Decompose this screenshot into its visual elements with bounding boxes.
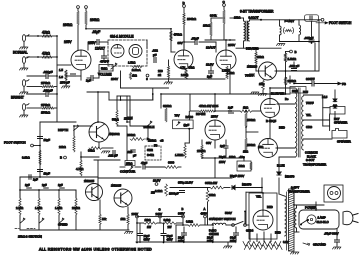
svg-text:3.6ΩCT: 3.6ΩCT [249, 16, 259, 20]
svg-text:100kΩ: 100kΩ [63, 23, 73, 27]
svg-text:10μF: 10μF [44, 138, 51, 142]
svg-text:6800: 6800 [168, 161, 175, 165]
svg-text:1μF: 1μF [58, 183, 63, 187]
svg-text:285V: 285V [228, 43, 236, 47]
svg-text:FB: FB [154, 144, 158, 148]
svg-text:22kΩ: 22kΩ [59, 145, 67, 149]
svg-text:47kΩ: 47kΩ [42, 52, 50, 56]
svg-text:1μF: 1μF [220, 144, 225, 148]
svg-text:250V: 250V [211, 115, 218, 119]
svg-text:1 AMP: 1 AMP [318, 216, 326, 220]
svg-text:DEPTH: DEPTH [58, 128, 68, 132]
svg-text:70V: 70V [175, 113, 180, 117]
svg-text:12.5V: 12.5V [206, 63, 214, 67]
svg-text:SPEED: SPEED [58, 223, 67, 227]
svg-text:390k: 390k [210, 14, 217, 18]
svg-text:2W: 2W [168, 225, 172, 229]
svg-text:10μF: 10μF [44, 172, 51, 176]
svg-text:1000μF: 1000μF [169, 192, 179, 196]
svg-text:1μF: 1μF [25, 183, 30, 187]
svg-text:220kΩ: 220kΩ [288, 79, 297, 83]
svg-text:1W: 1W [147, 225, 151, 229]
svg-text:.022: .022 [152, 49, 158, 53]
svg-text:20μF: 20μF [144, 234, 150, 238]
svg-text:60V: 60V [206, 141, 211, 145]
svg-text:RED: RED [267, 205, 273, 209]
svg-text:1kΩ: 1kΩ [243, 150, 248, 154]
svg-text:165V: 165V [64, 40, 72, 44]
svg-text:1μF: 1μF [228, 106, 233, 110]
svg-text:RED: RED [275, 231, 281, 235]
svg-text:.001μF: .001μF [43, 70, 53, 74]
svg-text:10k: 10k [102, 217, 107, 221]
svg-text:500V: 500V [225, 211, 232, 215]
svg-text:100V: 100V [111, 77, 118, 81]
svg-text:750PF: 750PF [306, 101, 314, 105]
svg-text:30μF: 30μF [230, 236, 236, 240]
svg-text:10kΩ: 10kΩ [145, 218, 151, 222]
svg-text:485V: 485V [201, 211, 208, 215]
svg-text:20μF: 20μF [207, 236, 213, 240]
svg-text:(2μF: (2μF [184, 123, 190, 127]
svg-text:2N2925: 2N2925 [111, 184, 122, 188]
svg-text:B: B [60, 156, 62, 160]
svg-text:33kΩ: 33kΩ [88, 149, 95, 153]
svg-text:25kΩ 3 SECTION: 25kΩ 3 SECTION [18, 235, 42, 239]
svg-text:.05μF: .05μF [191, 37, 199, 41]
svg-text:47μF: 47μF [141, 161, 148, 165]
svg-text:1.5: 1.5 [59, 68, 63, 72]
svg-text:385V: 385V [178, 211, 185, 215]
svg-text:3.3kΩ: 3.3kΩ [22, 156, 30, 160]
svg-text:BRIGHT: BRIGHT [11, 96, 24, 100]
svg-text:BLUE: BLUE [277, 164, 285, 168]
svg-text:FOOT SWITCH: FOOT SWITCH [329, 21, 352, 25]
svg-text:.01μF: .01μF [92, 30, 100, 34]
svg-text:.022 μF: .022 μF [108, 154, 118, 158]
svg-text:IN3070: IN3070 [285, 175, 295, 179]
svg-text:6.8kΩ: 6.8kΩ [186, 220, 193, 224]
svg-text:STANDBY SWITCH: STANDBY SWITCH [209, 217, 236, 221]
svg-text:μF: μF [133, 154, 137, 158]
svg-text:B: B [295, 50, 297, 54]
svg-text:15Ω: 15Ω [121, 217, 126, 221]
svg-text:.05μF 600V: .05μF 600V [324, 232, 339, 236]
svg-text:IN3070: IN3070 [242, 183, 252, 187]
svg-text:9: 9 [146, 77, 148, 81]
svg-text:390kΩ: 390kΩ [127, 133, 135, 137]
svg-text:620kΩ: 620kΩ [163, 104, 172, 108]
svg-text:2μF: 2μF [33, 178, 38, 182]
svg-text:100kΩ: 100kΩ [90, 18, 100, 22]
svg-text:100kΩ: 100kΩ [187, 17, 197, 21]
svg-text:150V: 150V [219, 160, 225, 164]
svg-text:2μF: 2μF [86, 79, 91, 83]
svg-text:8.2kΩ: 8.2kΩ [155, 189, 162, 193]
svg-text:10kΩ: 10kΩ [209, 193, 215, 197]
svg-text:1.8kΩ: 1.8kΩ [55, 206, 62, 210]
svg-text:BLUE-WH: BLUE-WH [271, 92, 284, 96]
svg-text:1kΩ: 1kΩ [243, 106, 249, 110]
svg-text:2N2902: 2N2902 [109, 132, 120, 136]
svg-text:TRANSFORMER: TRANSFORMER [303, 163, 327, 167]
svg-text:270kΩ: 270kΩ [41, 103, 51, 107]
svg-text:9-BT TRANSFORMER: 9-BT TRANSFORMER [240, 10, 274, 14]
svg-text:6800: 6800 [292, 89, 299, 93]
svg-text:470kΩ: 470kΩ [174, 33, 183, 37]
svg-text:350μ 22.5V: 350μ 22.5V [178, 181, 193, 185]
svg-text:1.5MΩ: 1.5MΩ [288, 57, 297, 61]
svg-text:47kΩ 1W 10%: 47kΩ 1W 10% [199, 104, 219, 108]
svg-text:6.3V: 6.3V [283, 240, 289, 244]
svg-text:270kΩ: 270kΩ [41, 81, 51, 85]
svg-text:GROUND: GROUND [313, 243, 326, 247]
svg-text:15Ω: 15Ω [258, 145, 263, 149]
svg-text:650V: 650V [144, 238, 150, 242]
svg-text:RD-WH: RD-WH [196, 112, 205, 116]
svg-text:RED: RED [279, 126, 285, 130]
svg-text:B 6BQ5: B 6BQ5 [266, 119, 277, 123]
svg-text:2μF: 2μF [42, 183, 47, 187]
svg-text:ALL RESISTORS ½W ±10% UNLESS: ALL RESISTORS ½W ±10% UNLESS OTHERWISE N… [39, 248, 152, 252]
svg-text:1.5kΩ: 1.5kΩ [128, 61, 135, 65]
svg-text:±2: ±2 [158, 73, 162, 77]
svg-text:.001μF: .001μF [43, 89, 53, 93]
svg-text:80V: 80V [178, 41, 183, 45]
svg-text:SPEAKER: SPEAKER [334, 121, 347, 125]
svg-text:20μF: 20μF [178, 236, 184, 240]
svg-text:BLU: BLU [303, 90, 308, 94]
svg-text:1.8: 1.8 [59, 75, 63, 79]
svg-text:CONTOUR: CONTOUR [120, 170, 136, 174]
svg-text:150kΩ: 150kΩ [41, 111, 51, 115]
svg-text:.020: .020 [127, 150, 133, 154]
svg-text:.005μF: .005μF [304, 36, 314, 40]
svg-text:NORMAL: NORMAL [13, 51, 28, 55]
svg-text:VOLUME: VOLUME [98, 73, 111, 77]
svg-text:245V: 245V [156, 212, 163, 216]
svg-text:1.8kΩ: 1.8kΩ [35, 206, 42, 210]
svg-text:1.5MΩ: 1.5MΩ [175, 153, 183, 157]
svg-text:SLO-BLO: SLO-BLO [317, 220, 330, 224]
svg-text:POWER: POWER [305, 206, 317, 210]
svg-text:1μF: 1μF [207, 75, 212, 79]
svg-text:450V: 450V [167, 238, 173, 242]
svg-text:47kΩ: 47kΩ [42, 31, 50, 35]
svg-text:100kΩ: 100kΩ [247, 143, 255, 147]
svg-text:665Ω 1W: 665Ω 1W [205, 181, 217, 185]
svg-text:ORG: ORG [306, 125, 312, 129]
svg-text:SPEAKER: SPEAKER [337, 140, 351, 144]
svg-text:+B: +B [160, 139, 164, 143]
svg-text:12AU7: 12AU7 [206, 46, 216, 50]
svg-text:YEL: YEL [256, 195, 262, 199]
svg-text:2W: 2W [151, 191, 155, 195]
svg-text:5MΩ: 5MΩ [101, 67, 108, 71]
svg-text:B+: B+ [285, 97, 289, 101]
svg-text:270PF: 270PF [124, 117, 133, 121]
svg-text:YEL: YEL [306, 113, 312, 117]
svg-text:FB: FB [342, 82, 346, 86]
svg-text:1.5kΩ: 1.5kΩ [227, 71, 234, 75]
svg-text:20μF: 20μF [167, 234, 173, 238]
svg-text:56μF 150V: 56μF 150V [230, 174, 244, 178]
svg-text:220kΩ: 220kΩ [72, 206, 80, 210]
svg-text:220kΩ: 220kΩ [148, 139, 156, 143]
svg-text:FOOT SWITCH: FOOT SWITCH [4, 141, 26, 145]
svg-text:56kΩ: 56kΩ [112, 118, 119, 122]
svg-text:TRANSFORMER: TRANSFORMER [288, 190, 310, 194]
svg-text:D: D [183, 1, 186, 5]
svg-text:10kΩ: 10kΩ [239, 164, 245, 168]
svg-text:4.7kΩ: 4.7kΩ [76, 167, 83, 171]
svg-text:6.8kΩ: 6.8kΩ [164, 218, 171, 222]
svg-text:100kΩ: 100kΩ [247, 118, 255, 122]
svg-text:390PF: 390PF [306, 77, 315, 81]
svg-text:2.7kΩ: 2.7kΩ [16, 206, 23, 210]
svg-text:F-UNIT: F-UNIT [285, 19, 295, 23]
svg-text:250 μF: 250 μF [60, 81, 70, 85]
svg-text:18.5V: 18.5V [153, 179, 160, 183]
svg-text:SM-1 MODULE: SM-1 MODULE [110, 35, 134, 39]
svg-text:2N2925: 2N2925 [84, 179, 95, 183]
svg-text:COMMON: COMMON [305, 151, 318, 155]
svg-text:1kΩ: 1kΩ [132, 73, 137, 77]
svg-text:10kΩ: 10kΩ [257, 55, 265, 59]
svg-text:470PF: 470PF [100, 60, 109, 64]
svg-text:25kΩ: 25kΩ [126, 162, 132, 166]
svg-text:3-6OT: 3-6OT [306, 158, 315, 162]
svg-text:6×5Ω: 6×5Ω [147, 153, 154, 157]
svg-text:SM2: SM2 [147, 148, 153, 152]
svg-text:14.5mA: 14.5mA [132, 68, 141, 72]
svg-text:μF: μF [153, 53, 157, 57]
